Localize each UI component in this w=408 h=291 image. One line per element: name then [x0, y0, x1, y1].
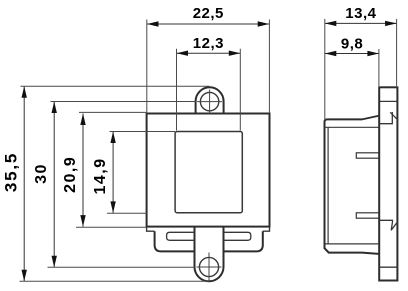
- side view body inner wall: [327, 127, 329, 244]
- dim 9,8 line: [325, 53, 379, 55]
- svg-text:12,3: 12,3: [193, 35, 224, 52]
- top hole crosshair vertical: [209, 90, 211, 115]
- dim 20,9 line: [82, 114, 84, 227]
- side view body outline: [325, 119, 380, 253]
- dim 20,9 arrow bottom: [80, 215, 85, 227]
- dim 13,4 arrow right: [385, 21, 397, 26]
- ext line 12,3 right: [239, 49, 241, 131]
- top mounting tab: [196, 87, 224, 113]
- dim 12,3 line: [177, 52, 241, 54]
- svg-text:9,8: 9,8: [341, 35, 363, 52]
- dim 14,9 arrow bottom: [110, 201, 115, 213]
- ext line 9,8 right: [378, 49, 380, 86]
- top mounting hole: [200, 92, 218, 110]
- dim 35,5 line: [23, 86, 25, 281]
- svg-text:14,9: 14,9: [92, 157, 109, 194]
- ext line 35,5 bottom: [20, 280, 210, 282]
- dim 30 arrow top: [52, 102, 57, 114]
- side view notch bottom: [379, 220, 397, 230]
- dim 22,5 line: [147, 23, 269, 25]
- side view latch lower: [356, 213, 379, 218]
- side view body top diagonal: [362, 116, 379, 120]
- side view flange column: [379, 87, 397, 280]
- rear housing outer right: [224, 231, 263, 251]
- side view flange line bottom: [379, 266, 397, 268]
- front view body (flange plate): [147, 114, 270, 227]
- ext line 13,4 left: [324, 19, 326, 120]
- dim 35,5 arrow bottom: [22, 270, 27, 282]
- top hole crosshair horizontal: [197, 101, 222, 103]
- side view body inner bottom edge: [325, 243, 378, 245]
- svg-text:30: 30: [33, 163, 50, 184]
- side view flange line top: [379, 100, 397, 102]
- dim 20,9 arrow top: [80, 114, 85, 126]
- dim 14,9 line: [112, 132, 114, 213]
- ext line 35,5 top: [21, 85, 210, 87]
- side view notch top: [379, 112, 392, 124]
- svg-text:22,5: 22,5: [193, 5, 224, 22]
- side view notch top spike: [390, 112, 397, 119]
- ext line 20,9 bottom: [76, 226, 146, 228]
- side view latch upper: [356, 153, 379, 158]
- ext line 30 bottom: [48, 266, 195, 268]
- dim 22,5 arrow left: [147, 21, 159, 26]
- ext line 22,5 right: [268, 20, 270, 114]
- side view body inner top edge: [325, 126, 379, 128]
- svg-text:35,5: 35,5: [2, 152, 21, 192]
- dim 9,8 arrow right: [367, 51, 379, 56]
- dim 12,3 arrow right: [229, 51, 241, 56]
- ext line 22,5 left: [146, 20, 148, 114]
- dim 35,5 arrow top: [22, 86, 27, 98]
- dim 14,9 arrow top: [110, 132, 115, 144]
- bottom mounting hole: [199, 257, 218, 276]
- front view opening (inner rectangle): [175, 132, 242, 213]
- dim 13,4 arrow left: [325, 21, 337, 26]
- rear housing step right: [263, 227, 270, 232]
- dim 30 line: [53, 102, 55, 268]
- dim 22,5 arrow right: [258, 21, 270, 26]
- ext line 30 top: [51, 101, 196, 103]
- svg-text:13,4: 13,4: [345, 5, 376, 22]
- dim 13,4 line: [325, 22, 397, 24]
- bottom hole crosshair horizontal: [197, 266, 222, 268]
- ext line 20,9 top: [79, 111, 146, 113]
- dim 30 arrow bottom: [52, 256, 57, 268]
- dim 9,8 arrow left: [325, 51, 337, 56]
- ext line 12,3 left: [176, 49, 178, 131]
- rear housing slot right: [224, 232, 251, 240]
- rear housing slot left: [167, 232, 194, 240]
- dim 12,3 arrow left: [177, 51, 189, 56]
- bottom mounting tab: [195, 227, 224, 282]
- rear housing outer left: [155, 231, 195, 251]
- ext line 14,9 top: [110, 131, 176, 133]
- rear housing step left: [147, 227, 155, 232]
- bottom hole crosshair vertical: [208, 253, 210, 282]
- ext line 13,4 right: [396, 19, 398, 86]
- svg-text:20,9: 20,9: [62, 156, 79, 193]
- ext line 14,9 bottom: [107, 212, 147, 214]
